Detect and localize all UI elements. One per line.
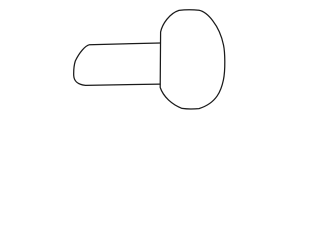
- bolt head outline: [160, 10, 225, 109]
- bolt shaft outline (shank with rounded left cap): [74, 43, 161, 85]
- part line drawing: push-button / bolt viewed from side: [0, 0, 300, 119]
